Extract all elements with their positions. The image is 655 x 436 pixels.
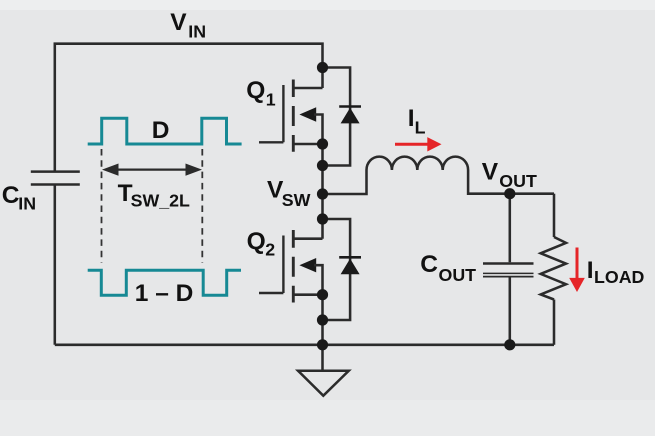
node VOUT (504, 188, 515, 199)
svg-text:I: I (587, 257, 594, 284)
dashed marker right (201, 149, 203, 263)
svg-text:V: V (482, 158, 499, 185)
svg-text:OUT: OUT (439, 265, 477, 285)
node VSW (317, 188, 328, 199)
svg-text:LOAD: LOAD (594, 267, 645, 287)
svg-text:Q: Q (247, 228, 266, 255)
current arrow ILOAD (red) (569, 248, 585, 293)
node Q2 drain / D2 junction (317, 213, 328, 224)
node VIN-D1 junction (317, 62, 328, 73)
wire: central rail Q1 source to Q2 drain (321, 144, 324, 239)
svg-text:C: C (420, 251, 438, 278)
svg-text:2: 2 (265, 240, 275, 260)
wire VSW node to inductor (323, 170, 367, 194)
svg-text:1: 1 (266, 89, 276, 109)
svg-text:IN: IN (18, 194, 36, 214)
wire: left vertical below CIN to bottom rail (54, 184, 57, 345)
Q1 gate lead (259, 85, 283, 142)
wire: top rail VIN (55, 44, 323, 173)
svg-text:L: L (415, 118, 426, 138)
svg-text:SW_2L: SW_2L (131, 191, 190, 211)
svg-text:IN: IN (188, 22, 206, 42)
Q2 channel bars (292, 230, 295, 303)
Q1 source stub (293, 143, 322, 146)
diode D1 (Q1 body diode branch) (323, 68, 362, 166)
svg-text:V: V (170, 9, 187, 36)
diode D2 (Q2 body diode branch) (323, 219, 362, 320)
node Q1 source junction (317, 138, 328, 149)
node ground rail junction (317, 339, 328, 350)
Q1 body wire (314, 115, 323, 145)
svg-text:C: C (2, 182, 20, 209)
node D1 anode junction (317, 160, 328, 171)
Q2 source stub (293, 293, 322, 296)
inductor L (367, 157, 469, 170)
node COUT bottom junction (504, 339, 515, 350)
svg-text:I: I (408, 105, 415, 132)
Q2 body arrow (299, 258, 316, 272)
dashed marker left (101, 149, 103, 263)
node Q2 source junction (317, 289, 328, 300)
wire inductor to VOUT and load (468, 170, 554, 194)
current arrow IL (red) (395, 137, 442, 151)
node D2 anode junction (317, 314, 328, 325)
transistor Q2 (NMOS low side) (259, 230, 323, 303)
waveform 1-D (teal inverted pulse train) (88, 270, 241, 295)
resistor RLOAD (541, 194, 566, 345)
svg-text:1 – D: 1 – D (135, 280, 194, 307)
Q1 channel bars (292, 80, 295, 152)
svg-text:D: D (152, 117, 170, 144)
transistor Q1 (NMOS high side) (259, 80, 323, 152)
wire: bottom rail (55, 344, 554, 347)
Q2 drain stub (293, 237, 322, 240)
svg-text:SW: SW (282, 190, 311, 210)
waveform D (teal pulse train) (88, 118, 242, 144)
capacitor COUT (483, 194, 534, 345)
Q2 gate lead (259, 236, 283, 294)
svg-text:Q: Q (246, 77, 265, 104)
svg-text:OUT: OUT (499, 171, 537, 191)
Q1 body arrow (299, 107, 316, 121)
capacitor CIN (31, 172, 80, 185)
wire: central rail Q2 source to ground (321, 295, 324, 371)
ground (298, 371, 349, 396)
Q1 drain stub (293, 87, 322, 90)
timing arrow TSW_2L (double headed) (102, 164, 202, 176)
Q2 body wire (314, 265, 323, 295)
